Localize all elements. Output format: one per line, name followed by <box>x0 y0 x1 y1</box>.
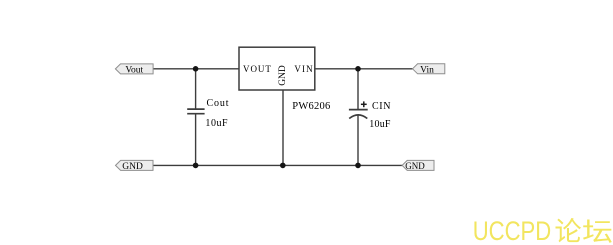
svg-text:10uF: 10uF <box>369 119 391 130</box>
svg-text:GND: GND <box>405 161 425 171</box>
svg-text:GND: GND <box>122 162 143 172</box>
svg-text:CIN: CIN <box>372 101 391 112</box>
svg-text:10uF: 10uF <box>205 118 228 129</box>
svg-text:Cout: Cout <box>207 98 230 109</box>
svg-text:VOUT: VOUT <box>243 64 272 74</box>
svg-text:GND: GND <box>278 65 288 86</box>
svg-text:PW6206: PW6206 <box>292 101 330 112</box>
svg-text:Vin: Vin <box>420 66 434 76</box>
svg-text:VIN: VIN <box>294 64 313 74</box>
svg-text:Vout: Vout <box>125 66 143 76</box>
svg-text:UCCPD: UCCPD <box>473 216 552 245</box>
